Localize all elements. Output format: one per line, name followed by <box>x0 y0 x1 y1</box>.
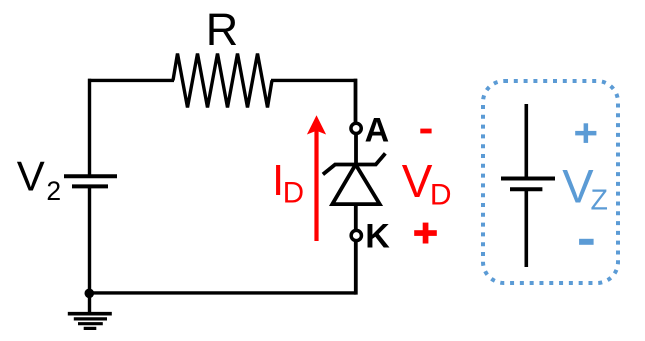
svg-text:Z: Z <box>591 184 608 216</box>
battery V2 long plate <box>64 174 117 178</box>
label V_D (red) <box>402 155 452 212</box>
node A terminal circle <box>351 123 361 133</box>
svg-text:V: V <box>562 159 594 212</box>
node K terminal circle <box>351 230 361 240</box>
zener diode D1: bar with bent ends <box>323 153 385 174</box>
label I_D (red) <box>272 156 304 210</box>
wire: right vertical (top corner to node A) <box>354 79 358 122</box>
label V_Z (blue) <box>562 159 608 216</box>
battery V2 short plate <box>72 184 108 188</box>
svg-text:A: A <box>365 111 390 149</box>
svg-text:K: K <box>365 217 390 255</box>
wire: top-right horizontal (resistor to right node) <box>271 79 357 82</box>
label plus (blue) <box>575 123 596 143</box>
svg-text:2: 2 <box>46 176 61 206</box>
wire: left vertical (top corner down to battery V2) <box>88 79 91 176</box>
label minus (blue) <box>579 239 594 245</box>
wire: bottom horizontal <box>90 291 356 294</box>
battery VZ long plate <box>501 177 555 181</box>
wire: node K down to bottom corner <box>354 242 358 295</box>
dashed highlight box (blue) <box>483 81 618 283</box>
wire: top-left horizontal (left node to resistor) <box>88 79 174 82</box>
svg-text:D: D <box>283 177 304 210</box>
battery VZ: bottom lead <box>524 191 528 267</box>
battery VZ short plate <box>510 187 542 191</box>
resistor R <box>173 54 272 108</box>
zener diode D1: triangle <box>332 165 379 205</box>
svg-text:V: V <box>17 153 45 200</box>
junction dot <box>85 289 95 299</box>
label V2 <box>17 153 61 207</box>
ground <box>68 293 112 328</box>
battery VZ: top lead <box>524 104 528 178</box>
wire: left vertical (battery V2 to bottom node) <box>88 188 91 294</box>
wire: zener triangle base to node K <box>354 204 358 229</box>
svg-text:V: V <box>402 155 433 207</box>
current arrow ID (red) <box>307 115 326 241</box>
svg-text:D: D <box>430 179 452 212</box>
label plus at node K (red) <box>414 223 437 244</box>
label minus at node A (red) <box>420 129 431 134</box>
svg-text:R: R <box>206 4 239 55</box>
wire: node A to zener cathode bar <box>354 135 358 165</box>
